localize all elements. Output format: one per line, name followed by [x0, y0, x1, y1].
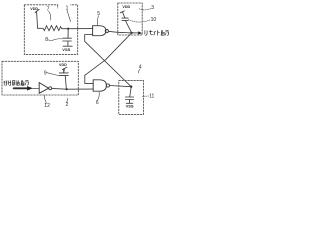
dashed box 2 (bottom-left input block) — [2, 61, 78, 95]
capacitor 10 — [122, 18, 132, 32]
dashed box 1 (RC block top-left) — [24, 5, 77, 55]
inverter 12 (buffer with bubble) — [39, 83, 52, 94]
wire node A to top NAND input — [68, 28, 93, 30]
op NAND gate 5 (top) — [93, 26, 109, 36]
label 12 — [44, 95, 50, 109]
svg-text:VSS: VSS — [126, 104, 134, 109]
input bold arrow — [14, 86, 40, 90]
label 5 — [97, 11, 100, 25]
node D junction (bottom output) — [130, 86, 132, 88]
label 4 — [138, 64, 141, 73]
dashed box 3 (top-right RC block) — [118, 3, 142, 35]
label 10 — [129, 17, 157, 23]
VDD symbol (box 2) — [59, 63, 67, 73]
wire bottom NAND output — [110, 86, 132, 87]
svg-text:VDD: VDD — [59, 63, 67, 67]
svg-text:VDD: VDD — [122, 5, 130, 9]
text sweep start signal (kanji) — [4, 80, 29, 85]
svg-text:12: 12 — [44, 103, 50, 109]
label 3 — [139, 5, 154, 11]
label 8 — [45, 37, 62, 43]
wire inverter to bottom NAND — [52, 87, 93, 90]
capacitor 8 — [63, 29, 72, 47]
node A junction (resistor/cap node) — [67, 28, 69, 30]
svg-text:8: 8 — [45, 37, 48, 43]
op NAND gate 6 (bottom) — [93, 80, 109, 91]
label 6 — [96, 92, 99, 106]
wire feedback diagonal A (top output to bottom NAND input) — [85, 33, 132, 84]
wire with arrow to reset output — [132, 31, 142, 34]
label 11 — [142, 93, 154, 99]
svg-text:5: 5 — [97, 11, 100, 17]
svg-text:VSS: VSS — [62, 47, 70, 52]
dashed box 11 (bottom-right RC block) — [119, 81, 144, 115]
svg-text:4: 4 — [139, 64, 142, 70]
wire top NAND output — [109, 31, 132, 33]
capacitor 11 — [125, 87, 133, 104]
capacitor 9 — [59, 69, 68, 89]
svg-text:11: 11 — [149, 93, 154, 99]
label 7 — [47, 6, 51, 20]
label 1 — [58, 3, 71, 21]
wire feedback diagonal B (bottom output to top NAND input) — [85, 34, 132, 86]
svg-text:9: 9 — [44, 70, 47, 76]
svg-text:6: 6 — [96, 100, 99, 106]
VDD symbol (box 1) — [30, 7, 39, 28]
label 2 — [66, 98, 69, 108]
svg-text:10: 10 — [151, 17, 157, 23]
svg-text:3: 3 — [151, 5, 154, 11]
resistor 7 — [38, 26, 69, 31]
text reset signal (katakana) — [145, 30, 169, 35]
node C junction (inverter output node) — [66, 88, 68, 90]
label 9 — [44, 70, 59, 76]
node B junction (top output) — [131, 32, 133, 34]
VDD symbol (box 3) — [120, 5, 130, 18]
